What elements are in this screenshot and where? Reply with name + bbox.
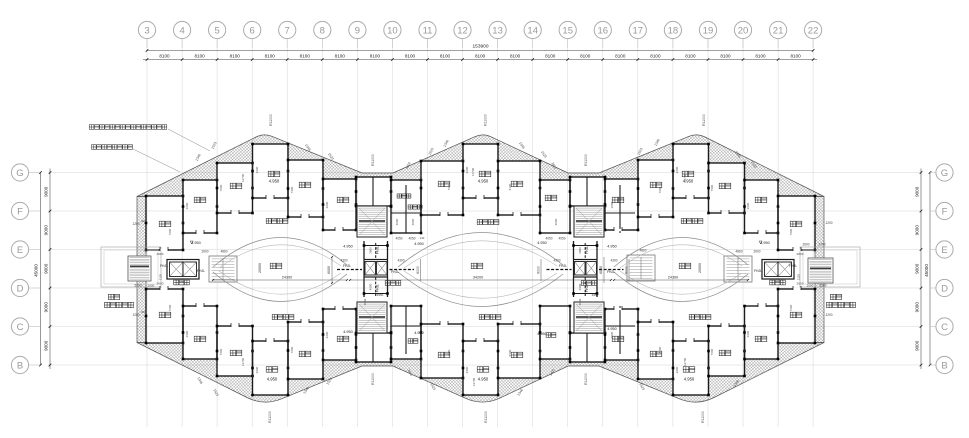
label canopy east line2	[827, 302, 856, 307]
room shop C2 (upper)	[288, 160, 323, 217]
svg-text:45000: 45000	[34, 264, 39, 277]
label toilets j1 a	[397, 194, 411, 198]
room toilets junction2 (lower)	[540, 306, 570, 359]
label shop B3 upper	[612, 197, 624, 203]
room shop D peak2 (upper)	[463, 144, 498, 198]
west canopy outline	[101, 247, 161, 287]
door opening lower	[266, 340, 274, 342]
svg-text:6000: 6000	[625, 266, 629, 274]
room shop A (upper)	[146, 196, 183, 250]
svg-text:5100: 5100	[508, 183, 512, 190]
door opening lower	[513, 323, 521, 325]
svg-text:7600: 7600	[710, 184, 714, 191]
svg-text:22: 22	[808, 25, 819, 36]
east canopy outline	[800, 247, 860, 287]
junction shaft cross walls	[573, 245, 599, 247]
svg-text:17: 17	[633, 25, 644, 36]
room shop C3 (lower)	[421, 324, 463, 378]
svg-text:2600: 2600	[185, 330, 189, 337]
svg-text:16: 16	[598, 25, 609, 36]
junction dashed vertical	[375, 243, 377, 259]
svg-text:20000: 20000	[698, 263, 702, 273]
svg-text:R11000: R11000	[269, 114, 273, 126]
svg-text:2600: 2600	[797, 252, 804, 256]
junction shaft side walls	[363, 241, 365, 259]
room shop C (upper)	[217, 163, 253, 213]
svg-text:B: B	[17, 360, 23, 371]
svg-text:4.950: 4.950	[537, 241, 547, 245]
svg-text:FHJL: FHJL	[343, 264, 351, 268]
label shop A2 lower	[790, 312, 802, 318]
svg-text:2600: 2600	[675, 366, 679, 373]
room shop B4 (upper)	[745, 180, 779, 233]
door opening upper	[513, 214, 521, 216]
label public corridor	[681, 219, 703, 224]
door opening lower	[758, 305, 766, 307]
svg-text:2600: 2600	[185, 202, 189, 209]
label shop D peak1	[268, 171, 280, 177]
junction stair (lower)	[357, 302, 387, 333]
svg-text:4050: 4050	[545, 237, 552, 241]
room shop C4 (lower)	[498, 324, 540, 378]
svg-text:4860: 4860	[735, 250, 742, 254]
svg-text:F: F	[17, 206, 23, 217]
row grid lines (horizontal, light)	[48, 172, 922, 174]
label shop B3 lower	[612, 336, 624, 342]
svg-text:4300: 4300	[340, 259, 347, 263]
label shop C2 upper	[299, 182, 311, 188]
svg-text:2600: 2600	[201, 250, 208, 254]
svg-text:3800: 3800	[578, 247, 582, 254]
label void above	[270, 263, 282, 269]
svg-text:4000: 4000	[395, 218, 399, 225]
svg-text:4050: 4050	[408, 237, 415, 241]
room shop B2 (lower)	[323, 309, 356, 360]
room shop B2 (upper)	[323, 179, 356, 230]
svg-text:12: 12	[457, 25, 468, 36]
svg-text:5: 5	[214, 25, 219, 36]
svg-text:2600: 2600	[610, 201, 614, 208]
door opening upper	[231, 212, 239, 214]
svg-text:4300: 4300	[553, 259, 560, 263]
svg-text:2600: 2600	[465, 366, 469, 373]
svg-text:8100: 8100	[650, 53, 661, 58]
svg-text:6000: 6000	[416, 266, 420, 274]
door opening lower	[231, 325, 239, 327]
label public corridor	[272, 315, 294, 320]
svg-text:4.950: 4.950	[343, 330, 353, 334]
svg-text:4.950: 4.950	[607, 245, 617, 249]
svg-text:7600: 7600	[447, 349, 451, 356]
svg-text:8100: 8100	[230, 53, 241, 58]
svg-text:2600: 2600	[807, 284, 814, 288]
room shop A2 (lower)	[778, 289, 815, 343]
svg-text:2600: 2600	[797, 282, 804, 286]
svg-text:7600: 7600	[710, 348, 714, 355]
svg-text:FHJL: FHJL	[585, 246, 589, 254]
svg-text:34200: 34200	[473, 275, 484, 279]
svg-text:1200: 1200	[825, 313, 832, 317]
room toilets junction1 (upper)	[391, 180, 421, 233]
svg-text:R11000: R11000	[584, 154, 588, 166]
label shop B lower	[194, 336, 206, 342]
door opening upper	[686, 197, 694, 199]
dim 34200 module2	[350, 279, 611, 281]
building hatched facade band bottom	[137, 343, 824, 403]
junction elevators	[364, 260, 388, 278]
door opening lower	[160, 288, 168, 290]
room shop C3 (upper)	[421, 161, 463, 215]
door opening upper	[196, 232, 204, 234]
label shop C upper	[230, 183, 242, 189]
label public corridor	[477, 220, 499, 225]
label shop C5 lower	[650, 351, 662, 357]
right dim 45000 total line	[929, 173, 931, 366]
svg-text:300: 300	[141, 310, 146, 314]
svg-text:21: 21	[773, 25, 784, 36]
svg-text:4.950: 4.950	[414, 331, 424, 335]
svg-text:1125: 1125	[797, 274, 801, 281]
label public corridor	[266, 219, 288, 224]
svg-text:B: B	[941, 360, 947, 371]
svg-text:8: 8	[320, 25, 325, 36]
room shop C (lower)	[217, 326, 253, 376]
label shop D dip1	[266, 367, 278, 373]
room shop A (lower)	[146, 289, 183, 343]
junction dashed vertical	[584, 243, 586, 259]
dim 6000 vertical lens3 left	[628, 259, 630, 281]
svg-text:2600: 2600	[465, 166, 469, 173]
label shop C4 lower	[511, 352, 523, 358]
door opening lower	[721, 325, 729, 327]
rooms junction2 (lower)	[570, 333, 605, 362]
label shop T2 lower	[546, 333, 556, 338]
svg-text:4.950: 4.950	[269, 179, 280, 184]
svg-text:2600: 2600	[255, 366, 259, 373]
label shop D dip2	[477, 367, 489, 373]
east elevators	[762, 260, 794, 280]
escalator block	[209, 256, 237, 282]
svg-text:3: 3	[144, 25, 149, 36]
svg-text:3800: 3800	[369, 247, 373, 254]
label shop C5 upper	[650, 182, 662, 188]
svg-text:9000: 9000	[44, 302, 49, 313]
junction wall stubs dashed horizontal	[547, 269, 572, 271]
label canopy west line1	[108, 294, 119, 299]
label shop B upper	[194, 197, 206, 203]
svg-text:7600: 7600	[290, 346, 294, 353]
label void above	[471, 263, 483, 269]
label shop B4 upper	[755, 197, 767, 203]
svg-text:7600: 7600	[658, 186, 662, 193]
svg-text:7600: 7600	[219, 348, 223, 355]
junction partition walls	[372, 177, 374, 206]
room shop D peak2 (lower)	[463, 341, 498, 395]
door opening upper	[476, 197, 484, 199]
svg-text:FHJL: FHJL	[160, 264, 168, 268]
label shop B2 upper	[337, 197, 349, 203]
label canopy west line2	[105, 302, 134, 307]
void lens module1	[213, 237, 347, 267]
room shop C5 (lower)	[638, 322, 673, 379]
svg-text:2600: 2600	[255, 166, 259, 173]
svg-text:8100: 8100	[545, 53, 556, 58]
door opening upper	[793, 249, 801, 251]
door opening lower	[196, 305, 204, 307]
room toilets junction2 (upper)	[540, 180, 570, 233]
dim 24390 module3	[614, 279, 748, 281]
dim 6000 vertical at junction2	[603, 257, 605, 283]
svg-text:E: E	[17, 245, 23, 256]
door opening lower	[686, 340, 694, 342]
escalator block	[627, 255, 655, 281]
label elevator hall	[581, 281, 597, 286]
room shop B4 (lower)	[745, 306, 779, 359]
svg-text:5200: 5200	[819, 284, 826, 288]
label shop D peak3	[682, 171, 694, 177]
svg-text:9000: 9000	[44, 263, 49, 274]
svg-text:1042: 1042	[363, 298, 367, 305]
svg-text:8100: 8100	[475, 53, 486, 58]
svg-text:4600: 4600	[578, 283, 582, 290]
label shop C6 lower	[719, 350, 731, 356]
room shop A2 (upper)	[778, 196, 815, 250]
west core stair treads	[128, 256, 151, 281]
column grid lines (vertical, light)	[146, 39, 148, 427]
svg-text:2600: 2600	[157, 282, 164, 286]
svg-text:4860: 4860	[639, 249, 646, 253]
svg-text:2600: 2600	[148, 284, 155, 288]
svg-text:9000: 9000	[44, 225, 49, 236]
svg-text:R11000: R11000	[701, 411, 705, 423]
svg-text:4050: 4050	[538, 218, 542, 225]
rooms junction1 (lower)	[356, 333, 391, 362]
svg-text:2600: 2600	[675, 166, 679, 173]
label shop C2 lower	[299, 351, 311, 357]
svg-text:12700: 12700	[241, 357, 245, 366]
note projection line	[92, 145, 133, 150]
svg-text:4050: 4050	[411, 218, 415, 225]
svg-text:8100: 8100	[300, 53, 311, 58]
junction wall stubs dashed horizontal	[337, 269, 362, 271]
svg-text:7600: 7600	[168, 228, 172, 235]
label shop D dip3	[683, 367, 695, 373]
svg-text:2600: 2600	[157, 252, 164, 256]
svg-text:8100: 8100	[265, 53, 276, 58]
svg-text:9000: 9000	[44, 186, 49, 197]
svg-text:2600: 2600	[325, 331, 329, 338]
svg-text:2600: 2600	[746, 202, 750, 209]
svg-text:8100: 8100	[755, 53, 766, 58]
svg-text:9000: 9000	[44, 340, 49, 351]
junction elevators	[574, 260, 598, 278]
svg-text:R11000: R11000	[371, 373, 375, 385]
rooms junction2 (upper)	[570, 177, 605, 206]
svg-text:FHJL: FHJL	[607, 270, 615, 274]
svg-text:FHJL: FHJL	[376, 246, 380, 254]
svg-text:8100: 8100	[405, 53, 416, 58]
label shop C4 upper	[511, 181, 523, 187]
svg-text:14: 14	[527, 25, 538, 36]
svg-text:R11000: R11000	[484, 411, 488, 423]
label shop A upper	[159, 221, 171, 227]
door opening lower	[651, 321, 659, 323]
label shop C3 lower	[438, 352, 450, 358]
svg-text:6000: 6000	[327, 266, 331, 274]
west elevators	[167, 260, 199, 280]
right dim 9000 segment line	[920, 169, 922, 370]
door opening upper	[758, 232, 766, 234]
svg-text:6000: 6000	[599, 266, 603, 274]
room shop B (upper)	[183, 180, 217, 233]
svg-text:FHJL: FHJL	[754, 269, 762, 273]
label canopy east line1	[830, 294, 841, 299]
svg-text:8100: 8100	[790, 53, 801, 58]
svg-text:2600: 2600	[802, 243, 809, 247]
escalator block	[724, 256, 752, 282]
door opening lower	[476, 340, 484, 342]
void lens module3	[614, 237, 748, 267]
door opening upper	[266, 197, 274, 199]
label shop B4 lower	[755, 336, 767, 342]
svg-text:12700: 12700	[683, 357, 687, 366]
svg-text:2600: 2600	[753, 250, 760, 254]
svg-text:4.950: 4.950	[478, 179, 489, 184]
svg-text:FHJL: FHJL	[197, 269, 205, 273]
svg-text:R11000: R11000	[484, 114, 488, 126]
svg-text:4000: 4000	[554, 218, 558, 225]
east core stair treads	[808, 258, 833, 283]
room toilets junction1 (lower)	[391, 306, 421, 359]
label shop C3 upper	[438, 181, 450, 187]
svg-text:8100: 8100	[194, 53, 205, 58]
svg-text:4.950: 4.950	[343, 245, 353, 249]
svg-text:130: 130	[420, 236, 425, 240]
room shop C5 (upper)	[638, 160, 673, 217]
left dim 9000 segment line	[49, 169, 51, 370]
svg-text:15: 15	[562, 25, 573, 36]
svg-text:1200: 1200	[825, 221, 832, 225]
door opening lower	[614, 308, 622, 310]
door opening lower	[335, 308, 343, 310]
svg-text:7600: 7600	[168, 304, 172, 311]
label shop D peak2	[479, 171, 491, 177]
label shop C lower	[230, 350, 242, 356]
svg-text:6: 6	[250, 25, 255, 36]
door opening lower	[301, 321, 309, 323]
svg-text:E: E	[941, 245, 947, 256]
svg-text:13: 13	[492, 25, 503, 36]
svg-text:4.950: 4.950	[537, 332, 547, 336]
svg-text:5200: 5200	[134, 284, 141, 288]
room shop B (lower)	[183, 306, 217, 359]
room shop B3 (upper)	[605, 179, 638, 230]
door opening upper	[335, 229, 343, 231]
svg-text:4.950: 4.950	[414, 242, 424, 246]
room shop D peak3 (lower)	[673, 341, 709, 395]
svg-text:4050: 4050	[558, 237, 565, 241]
svg-text:7600: 7600	[789, 228, 793, 235]
svg-text:8100: 8100	[510, 53, 521, 58]
svg-text:FHJL: FHJL	[376, 284, 380, 292]
door opening upper	[651, 216, 659, 218]
door opening lower	[440, 323, 448, 325]
label public corridor	[479, 315, 501, 320]
dim 24390 module1	[213, 279, 347, 281]
svg-text:300: 300	[141, 219, 146, 223]
note AC equipment platform	[89, 125, 166, 130]
label shop j1 lower	[408, 339, 418, 344]
svg-text:8100: 8100	[159, 53, 170, 58]
svg-text:4.950: 4.950	[478, 377, 489, 382]
door opening upper	[614, 229, 622, 231]
svg-text:FHJL: FHJL	[789, 264, 797, 268]
void lens module2	[398, 232, 563, 267]
label elevator hall	[770, 280, 786, 285]
svg-text:9000: 9000	[915, 340, 920, 351]
svg-text:9000: 9000	[915, 186, 920, 197]
svg-text:4.950: 4.950	[607, 327, 617, 331]
svg-text:12700: 12700	[471, 167, 475, 176]
svg-text:18: 18	[668, 25, 679, 36]
label shop C6 upper	[719, 183, 731, 189]
label shop A2 upper	[790, 221, 802, 227]
svg-text:D: D	[17, 283, 24, 294]
svg-text:9000: 9000	[915, 302, 920, 313]
svg-text:R11000: R11000	[702, 114, 706, 126]
svg-text:FHJL: FHJL	[585, 284, 589, 292]
svg-text:6000: 6000	[537, 266, 541, 274]
junction shaft cross walls	[363, 245, 389, 247]
label toilets j1 b	[408, 205, 422, 209]
svg-text:8100: 8100	[440, 53, 451, 58]
svg-text:R11000: R11000	[268, 411, 272, 423]
label elevator hall	[174, 280, 190, 285]
label void above	[679, 263, 691, 269]
svg-text:R11000: R11000	[584, 373, 588, 385]
room shop C6 (lower)	[709, 326, 745, 376]
junction stair (upper)	[357, 206, 387, 237]
building hatched facade band top	[137, 135, 824, 197]
room shop D peak1 (upper)	[253, 144, 289, 198]
svg-text:1042: 1042	[578, 298, 582, 305]
svg-text:4300: 4300	[610, 259, 617, 263]
svg-text:F: F	[942, 206, 948, 217]
room shop C6 (upper)	[709, 163, 745, 213]
svg-text:3950: 3950	[377, 293, 384, 297]
svg-text:45000: 45000	[924, 264, 929, 277]
room shop C4 (upper)	[498, 161, 540, 215]
svg-text:G: G	[16, 168, 23, 179]
svg-text:4050: 4050	[395, 237, 402, 241]
svg-text:G: G	[941, 168, 948, 179]
dim 8100 segment line	[143, 59, 817, 61]
junction shaft side walls	[573, 241, 575, 259]
svg-text:FHJL: FHJL	[391, 270, 399, 274]
svg-text:12700: 12700	[472, 377, 476, 386]
svg-text:7600: 7600	[789, 304, 793, 311]
svg-text:5100: 5100	[508, 349, 512, 356]
row grid bubbles G-B left	[11, 164, 28, 181]
room shop C2 (lower)	[288, 322, 323, 379]
svg-text:11: 11	[423, 25, 433, 36]
svg-text:4: 4	[179, 25, 184, 36]
door opening upper	[440, 214, 448, 216]
dim 6000 vertical lens2 right	[540, 259, 542, 281]
label shop T2 upper	[545, 195, 557, 201]
door opening lower	[793, 288, 801, 290]
svg-text:8100: 8100	[370, 53, 381, 58]
